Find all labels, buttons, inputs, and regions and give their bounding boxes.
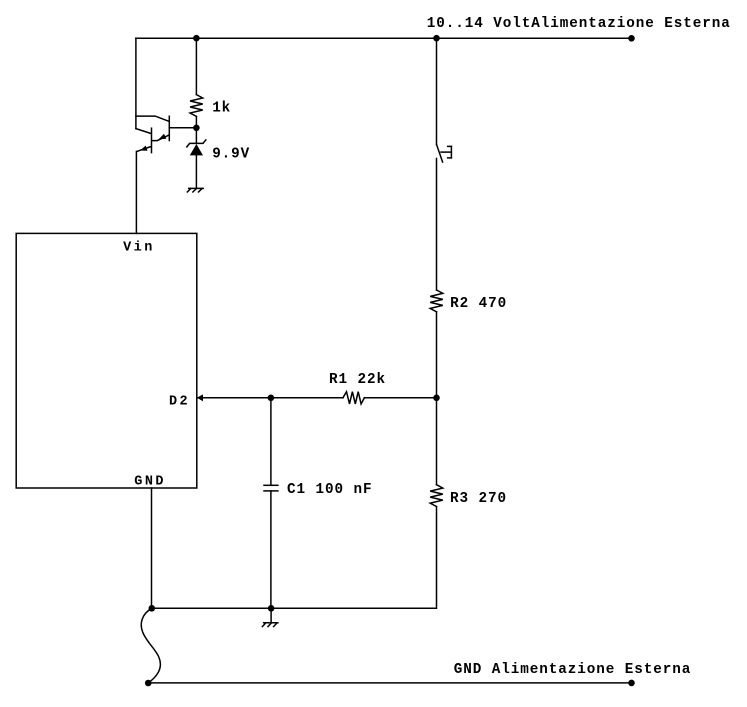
junction T-rail/1k bbox=[193, 35, 200, 42]
wire 1k to node bbox=[195, 116, 197, 127]
terminal top rail end bbox=[628, 35, 635, 42]
ground (below bottom node rail) bbox=[262, 608, 278, 626]
wire left collector drop from rail bbox=[135, 38, 137, 128]
wire Q2 emitter to Vin pin bbox=[135, 152, 137, 234]
transistor Q1 (upper of darlington pair) bbox=[136, 116, 197, 141]
zener diode D1 9.9V bbox=[187, 140, 206, 156]
junction C1/node rail/ground bbox=[268, 605, 275, 612]
ground (below zener) bbox=[187, 188, 203, 192]
junction rail/switch bbox=[433, 35, 440, 42]
svg-text:10..14 VoltAlimentazione Ester: 10..14 VoltAlimentazione Esterna bbox=[427, 16, 731, 32]
pin arrow into D2 bbox=[197, 394, 203, 401]
resistor R2 470 bbox=[430, 290, 443, 312]
svg-text:R3 270: R3 270 bbox=[450, 491, 507, 507]
svg-text:Vin: Vin bbox=[123, 240, 155, 255]
wire switch to R2 bbox=[436, 159, 438, 291]
junction D2 wire/C1 bbox=[268, 395, 275, 402]
svg-text:GND Alimentazione Esterna: GND Alimentazione Esterna bbox=[454, 662, 692, 678]
terminal bottom rail right bbox=[628, 680, 635, 687]
wire zener to ground bbox=[195, 155, 197, 188]
resistor R4 1k bbox=[190, 95, 203, 117]
wire rail to switch S1 bbox=[436, 38, 438, 144]
IC box U1 bbox=[16, 233, 197, 488]
resistor R1 22k bbox=[343, 392, 364, 404]
wire GND pin down bbox=[151, 488, 153, 608]
transistor Q2 (lower of darlington pair) bbox=[136, 128, 152, 152]
junction 1k/zener/base node bbox=[193, 125, 200, 132]
wire top supply rail bbox=[136, 37, 632, 39]
svg-text:GND: GND bbox=[134, 474, 166, 489]
wire node to zener D1 bbox=[195, 128, 197, 144]
terminal bottom rail left bbox=[145, 680, 152, 687]
capacitor C1 100nF bbox=[264, 485, 278, 491]
wire node to R3 bbox=[436, 398, 438, 485]
wire rail to R4 (1k) bbox=[195, 38, 197, 94]
wire squiggle to external GND bbox=[141, 608, 160, 683]
svg-text:R1 22k: R1 22k bbox=[329, 372, 386, 388]
wire R1 to node bbox=[364, 397, 436, 399]
svg-text:9.9V: 9.9V bbox=[212, 147, 250, 163]
wire C1 branch down bbox=[270, 398, 272, 486]
wire R3 to bottom node rail bbox=[152, 507, 437, 609]
resistor R3 270 bbox=[430, 485, 443, 507]
junction R1/R2/R3 node bbox=[433, 395, 440, 402]
junction GND pin/node rail bbox=[149, 605, 156, 612]
wire R2 to node bbox=[436, 312, 438, 398]
svg-text:D2: D2 bbox=[169, 395, 190, 410]
svg-text:R2 470: R2 470 bbox=[450, 296, 507, 312]
wire C1 to bottom node rail bbox=[270, 491, 272, 608]
wire bottom external rail bbox=[148, 682, 631, 684]
svg-text:C1 100 nF: C1 100 nF bbox=[287, 482, 373, 498]
switch S1 (pushbutton) bbox=[437, 144, 452, 162]
wire D2 pin to R1 bbox=[197, 397, 343, 399]
svg-text:1k: 1k bbox=[212, 100, 231, 116]
